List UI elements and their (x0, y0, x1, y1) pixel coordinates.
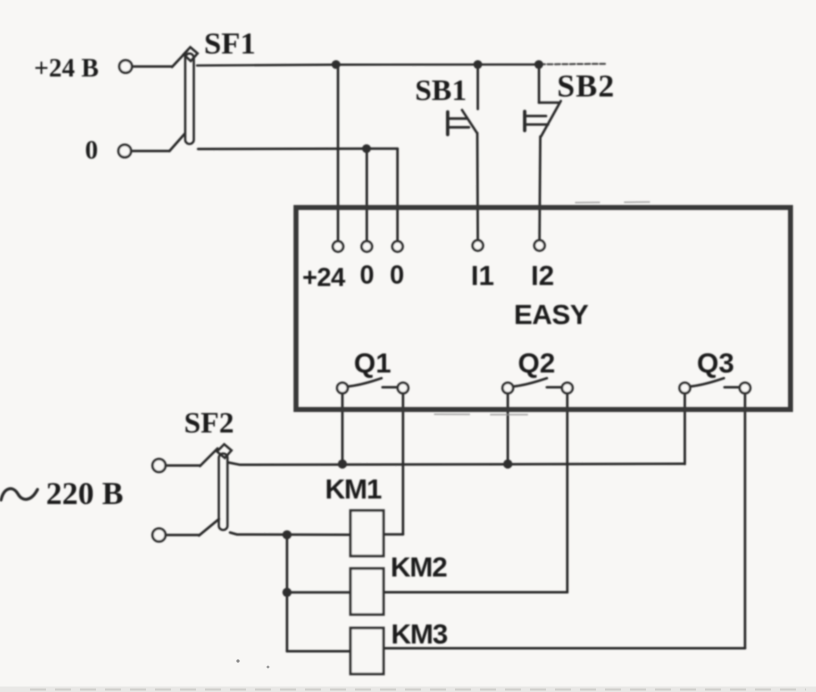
svg-text:Q1: Q1 (354, 348, 391, 379)
svg-text:SF1: SF1 (204, 26, 256, 61)
svg-text:SF2: SF2 (184, 407, 234, 440)
svg-text:KM3: KM3 (391, 619, 448, 650)
svg-text:SB1: SB1 (415, 74, 467, 107)
svg-text:0: 0 (85, 136, 98, 165)
svg-text:KM2: KM2 (390, 552, 447, 583)
svg-text:220 В: 220 В (46, 475, 123, 511)
svg-text:0: 0 (390, 260, 404, 290)
svg-text:+24: +24 (302, 262, 346, 292)
svg-text:Q2: Q2 (518, 348, 555, 379)
svg-text:0: 0 (360, 260, 374, 290)
svg-text:I1: I1 (471, 260, 494, 291)
svg-text:+24 В: +24 В (34, 54, 99, 83)
svg-text:KM1: KM1 (325, 474, 382, 505)
svg-text:I2: I2 (531, 260, 554, 291)
svg-text:Q3: Q3 (697, 348, 734, 379)
svg-text:EASY: EASY (514, 299, 589, 330)
svg-text:SB2: SB2 (557, 68, 615, 104)
